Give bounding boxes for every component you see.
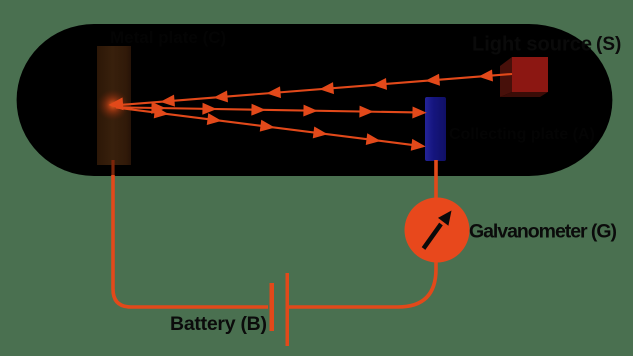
svg-text:Metal plate (C): Metal plate (C)	[110, 28, 226, 47]
light ray L1 from S to plate C	[111, 71, 512, 109]
svg-text:(S): (S)	[596, 34, 621, 55]
vacuum tube (evacuated glass bulb)	[17, 24, 613, 176]
collector plate A (blue electrode)	[425, 97, 446, 161]
battery B: short negative terminal	[270, 283, 275, 331]
svg-text:Collecting plate (A): Collecting plate (A)	[449, 126, 595, 143]
electron ray E2 from plate C to collector A (declining)	[116, 108, 423, 150]
svg-text:Light source: Light source	[472, 34, 592, 56]
svg-text:Galvanometer (G): Galvanometer (G)	[469, 221, 617, 243]
electron ray E1 from plate C to collector A (horizontal)	[116, 104, 424, 117]
svg-text:Battery (B): Battery (B)	[170, 313, 267, 335]
wire from battery to galvanometer	[289, 262, 436, 307]
emitter plate C (photosensitive plate)	[97, 46, 131, 165]
galvanometer needle	[422, 211, 452, 250]
glow at emission point on plate	[97, 89, 129, 121]
wire from galvanometer up to collector plate A	[434, 160, 438, 199]
wire from plate C down to bottom-left corner	[113, 175, 268, 307]
wire from plate C down to bottom-left corner (dim segment inside tube)	[111, 160, 114, 176]
battery B: long positive terminal	[286, 273, 290, 346]
light source S (red cube)	[500, 57, 548, 97]
galvanometer G (orange circle)	[405, 198, 470, 263]
